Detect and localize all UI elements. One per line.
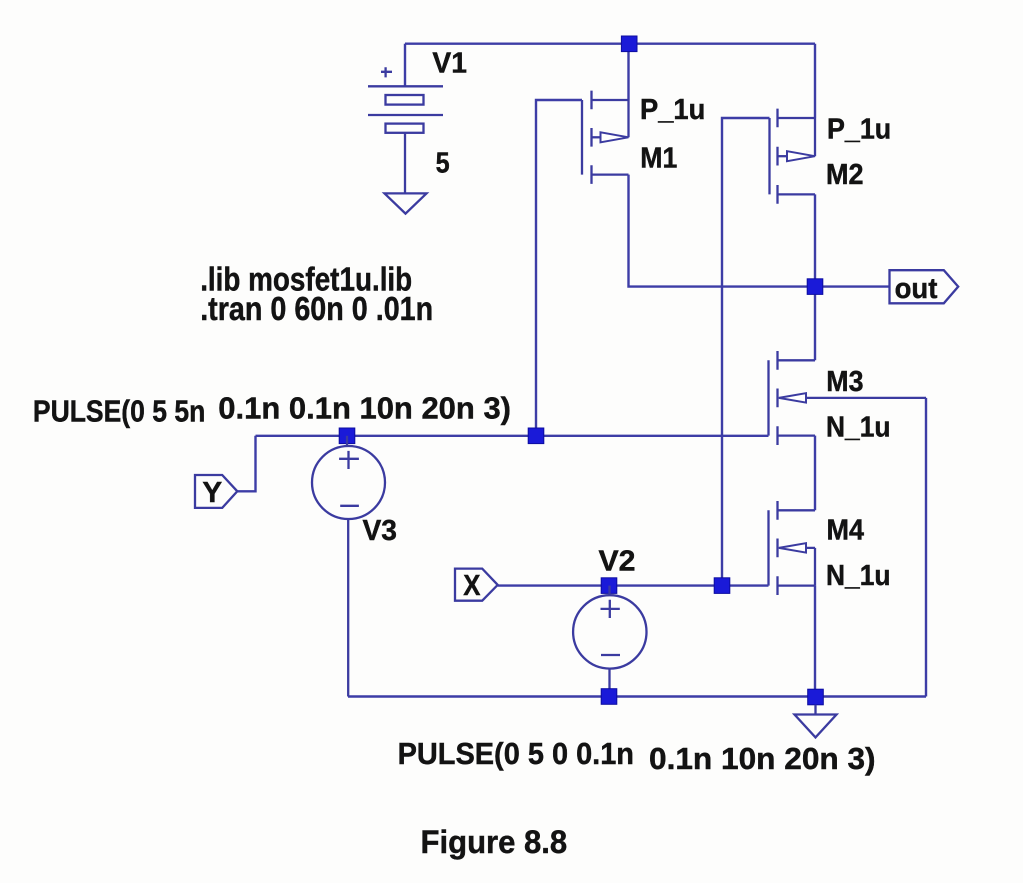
svg-text:M2: M2	[826, 159, 864, 191]
svg-text:M1: M1	[640, 142, 677, 174]
svg-text:out: out	[895, 273, 938, 305]
wire M2 drain down to out node	[814, 194, 816, 286]
node M4/ground junction	[808, 689, 824, 705]
svg-text:N_1u: N_1u	[826, 560, 891, 592]
node Y/M1-gate junction	[528, 428, 544, 444]
wire M1 drain down to out node	[629, 175, 816, 287]
voltage source V3	[312, 436, 385, 697]
port out	[890, 270, 959, 303]
wire X net horizontal	[498, 584, 769, 586]
wire out node down to M3 drain	[814, 287, 816, 361]
wire M3 source to M4 drain	[814, 436, 816, 511]
voltage source V1 (battery)	[368, 67, 443, 193]
ground under V1	[385, 193, 427, 213]
wire M4 source down to ground rail	[814, 586, 816, 697]
svg-text:Figure 8.8: Figure 8.8	[421, 824, 568, 860]
svg-text:.tran 0 60n 0 .01n: .tran 0 60n 0 .01n	[200, 290, 433, 327]
svg-text:0.1n 0.1n 10n 20n 3): 0.1n 0.1n 10n 20n 3)	[218, 390, 511, 425]
svg-text:M3: M3	[826, 366, 863, 398]
node X/V2 junction	[601, 578, 617, 594]
wire top VDD rail	[405, 43, 815, 45]
svg-text:PULSE(0 5 5n: PULSE(0 5 5n	[33, 394, 205, 429]
svg-text:P_1u: P_1u	[827, 114, 891, 146]
transistor M1 (PMOS P_1u)	[582, 91, 629, 184]
port Y	[195, 475, 237, 508]
node V2/ground junction	[601, 689, 617, 705]
transistor M4 (NMOS N_1u)	[769, 501, 816, 595]
svg-text:V1: V1	[432, 47, 467, 79]
svg-text:V3: V3	[363, 515, 398, 547]
wire M1 gate lead	[536, 100, 582, 436]
transistor M3 (NMOS N_1u)	[769, 351, 927, 445]
wire Y net horizontal	[256, 435, 769, 437]
svg-text:0.1n 10n 20n 3): 0.1n 10n 20n 3)	[649, 741, 876, 776]
svg-text:X: X	[463, 570, 480, 602]
svg-text:M4: M4	[827, 515, 865, 547]
node out junction	[807, 279, 823, 295]
port X	[455, 569, 498, 601]
svg-text:P_1u: P_1u	[640, 94, 705, 126]
wire M1 source drop from rail	[627, 44, 629, 100]
voltage source V2	[573, 586, 646, 697]
node Y/V3 junction	[339, 428, 355, 444]
node X/M2-gate junction	[714, 578, 730, 594]
ground symbol bottom	[795, 705, 837, 738]
wire M3 bulk riser down right side	[925, 398, 927, 697]
wire out node to port	[815, 285, 890, 287]
node VDD junction	[621, 36, 637, 52]
wire M2 gate lead	[722, 118, 770, 586]
wire ground rail bottom	[348, 695, 926, 697]
transistor M2 (PMOS P_1u)	[770, 109, 816, 204]
wire V1 top stem	[404, 44, 406, 87]
svg-text:N_1u: N_1u	[826, 412, 891, 444]
svg-text:Y: Y	[202, 477, 222, 509]
svg-text:PULSE(0 5 0 0.1n: PULSE(0 5 0 0.1n	[398, 736, 634, 771]
wire Y port riser	[237, 436, 255, 492]
svg-text:V2: V2	[599, 546, 636, 578]
wire M2 source drop from rail	[814, 44, 816, 118]
svg-text:5: 5	[436, 147, 450, 179]
